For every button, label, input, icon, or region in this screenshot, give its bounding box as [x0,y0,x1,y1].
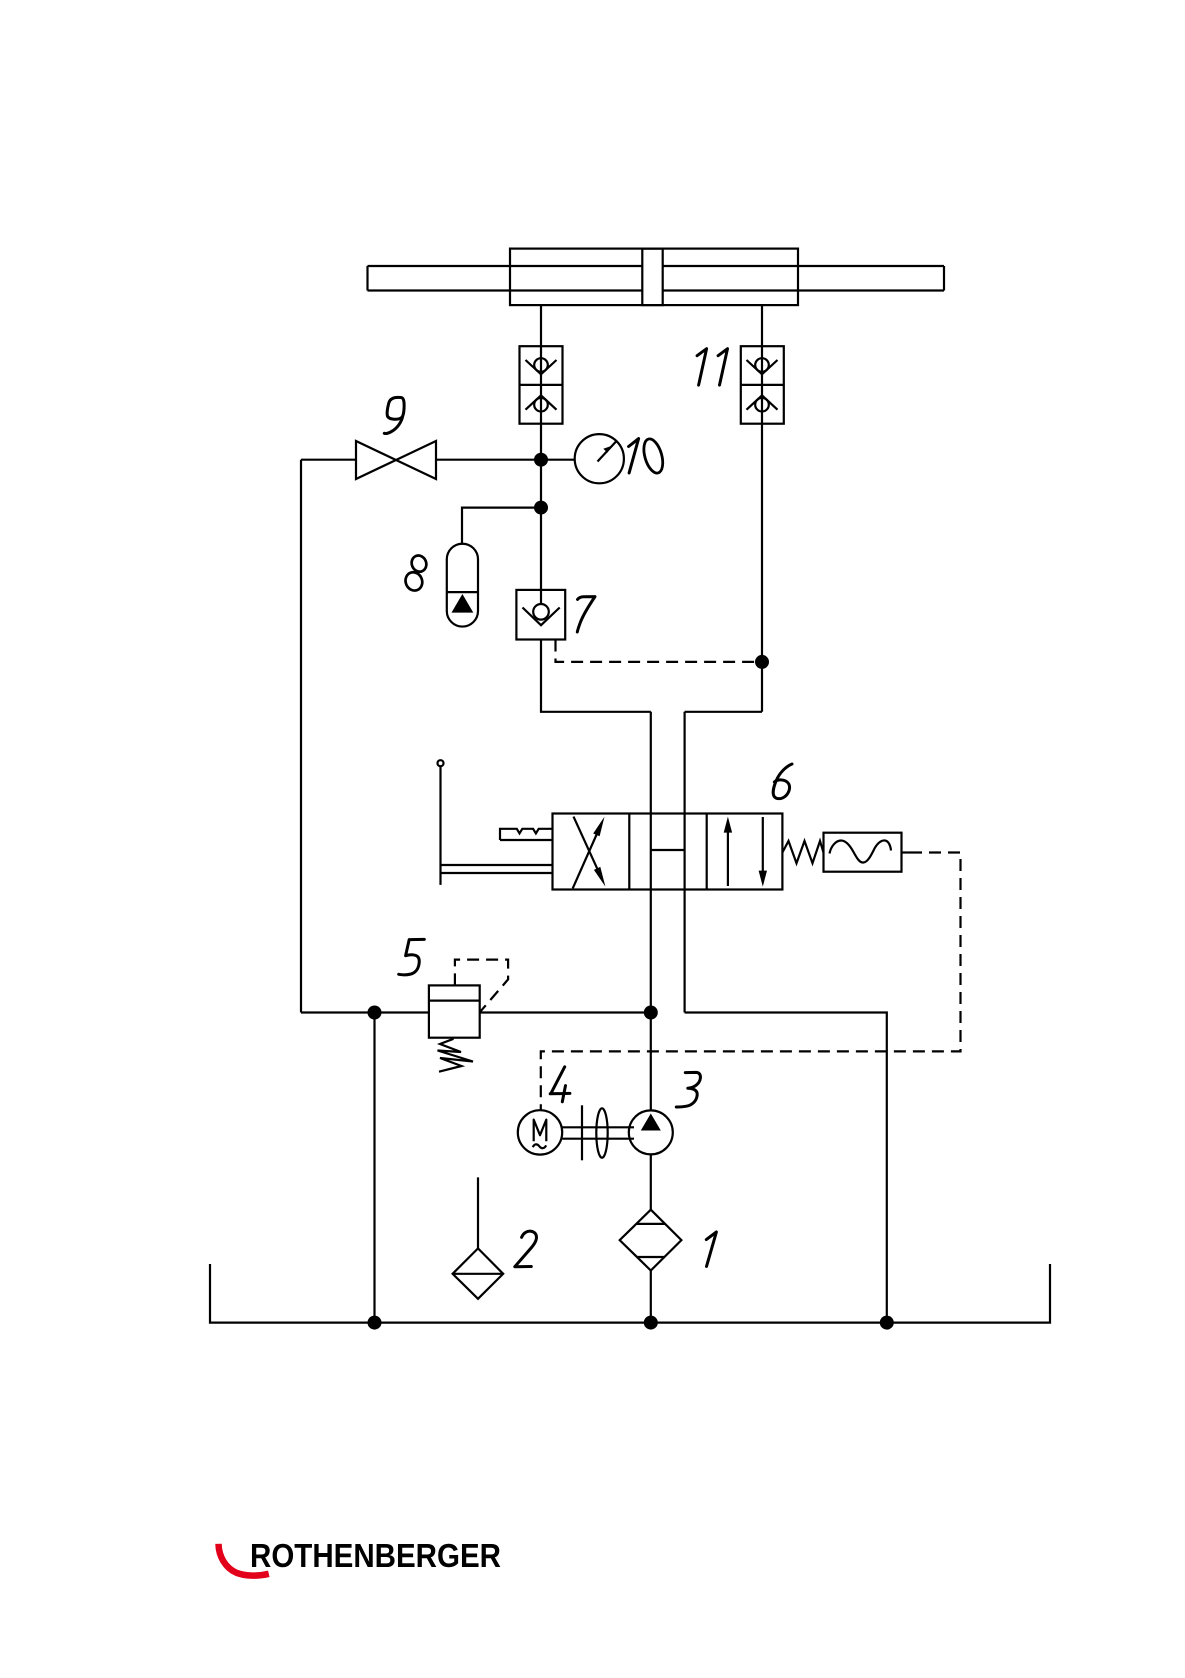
relief valve 5 pilot (dashed) [455,960,508,1013]
wire pressure horizontal row [301,1011,651,1013]
valve 6 lever pivot circle [438,760,444,766]
label 6 [773,764,792,799]
valve 6 detent notch bar [500,829,553,840]
wire valve9 right [436,459,541,461]
pilot line solenoid (dashed) [902,851,911,853]
node B (accumulator row) [534,501,548,515]
pilot line valve 7 (dashed) [556,640,763,662]
node tank right [880,1316,894,1330]
wire return to tank [685,1013,887,1323]
breather 2 diamond [453,1248,504,1298]
check valve pair 11 box [741,346,784,424]
cylinder left rod [368,266,643,291]
valve 6 lever [439,767,441,885]
pressure gauge 10 [575,434,624,483]
check valve 11 bottom symbol [747,395,778,409]
accumulator 8 [447,544,478,627]
wire below valve 7 [541,640,651,712]
tank [210,1264,1050,1323]
cylinder C (double rod) body [510,249,798,306]
wire filter to tank [650,1271,652,1323]
relief valve 5 spring [438,1039,474,1072]
shutoff valve 9 [356,441,436,479]
valve 6 right cell up arrow [727,831,729,886]
label 11 [697,349,727,385]
wire valve6 line T [683,712,685,1013]
check valve 7 symbol [540,590,542,605]
valve 6 right cell down arrow [762,817,764,872]
valve 6 middle cell crossbar [651,849,685,851]
valve 6 lever rod double line [441,865,553,873]
coupling tick [581,1105,583,1160]
node tank mid [644,1316,658,1330]
directional valve 6 body [553,814,783,890]
node pilot junction [755,655,769,669]
check valve left top symbol [540,346,542,424]
wire pump pressure [650,1013,652,1111]
svg-text:ROTHENBERGER: ROTHENBERGER [250,1537,501,1574]
label 9 [384,397,404,433]
wire left branch vertical [300,460,302,1013]
node tank left [368,1316,382,1330]
label 2 [515,1231,537,1267]
node D (pump junction) [644,1006,658,1020]
wire right line down [761,424,763,712]
label 1 [706,1232,716,1266]
wire accumulator branch [462,508,541,544]
valve 6 proportional solenoid box [824,833,902,872]
label 4 [550,1067,570,1102]
coupling ellipse [596,1108,607,1157]
motor shaft [562,1127,634,1138]
label 7 [577,597,595,632]
relief valve 5 box [429,985,480,1037]
node A (gauge row) [534,453,548,467]
label 3 [676,1072,700,1107]
check valve left bottom symbol [526,395,557,409]
breather 2 line [477,1177,479,1248]
label 10 [629,439,639,473]
cylinder right rod [663,266,944,291]
valve 6 left cell crossed arrows [573,833,598,889]
node C (left branch junction) [368,1006,382,1020]
wire cylinder left port [540,305,542,346]
wire valve6 line P [650,712,652,1013]
cylinder piston [642,249,662,306]
logo red arc [219,1544,269,1576]
label 8 [403,553,429,593]
wire right jog into valve [685,711,762,713]
wire node C to tank [373,1013,375,1323]
wire left line down to valve 7 [540,424,542,590]
check valve 7 box [516,590,565,640]
electric motor 4 [518,1110,562,1154]
check valve 11 top symbol [761,346,763,424]
wire gauge connector [541,459,575,461]
label 5 [399,939,425,974]
pump 3 [629,1110,673,1154]
wire pump to filter [650,1154,652,1209]
wire valve9 left [301,459,356,461]
wire cylinder right port [761,305,763,346]
valve 6 spring [782,841,823,863]
check valve pair left box [520,346,563,424]
filter 1 diamond [620,1210,682,1271]
